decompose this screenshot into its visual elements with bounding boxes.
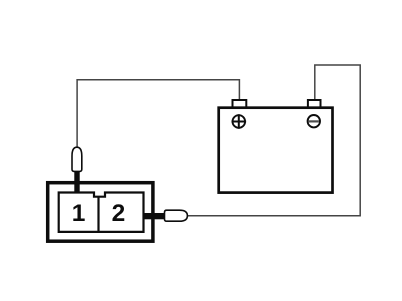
svg-text:1: 1 bbox=[72, 200, 86, 227]
svg-text:2: 2 bbox=[112, 200, 126, 227]
